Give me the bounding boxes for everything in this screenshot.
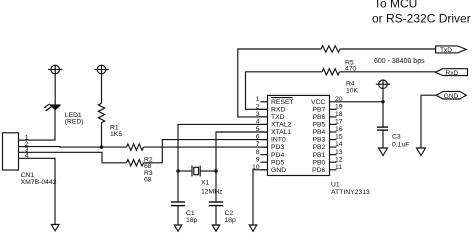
svg-text:X1: X1 [201, 179, 210, 186]
wire crystal right to C2 [215, 171, 217, 202]
wire CN1 pin4 to ground [26, 158, 56, 224]
wire GND flag to ground [421, 95, 436, 148]
svg-text:PB6: PB6 [312, 114, 325, 121]
svg-text:11: 11 [335, 164, 342, 171]
junction R1 / CN1 pin2 line [100, 145, 103, 148]
svg-text:PB1: PB1 [312, 152, 325, 159]
svg-text:RxD: RxD [446, 70, 459, 77]
wire R1 to D- line [101, 123, 103, 148]
ground (C3) [379, 148, 388, 156]
wire VCC to pin20 junction [337, 89, 384, 102]
wire GND pin10 to ground [253, 170, 268, 225]
svg-text:8: 8 [256, 149, 260, 156]
wire CN1 pin1 to LED1 [26, 110, 56, 140]
ground (CN1) [51, 225, 59, 231]
svg-text:GND: GND [271, 167, 286, 174]
resistor R2 68 [127, 144, 144, 150]
U1 reference label [331, 181, 370, 196]
svg-text:PB4: PB4 [312, 129, 325, 136]
svg-text:5: 5 [256, 126, 260, 133]
connector CN1 XM7B-0442 [3, 133, 57, 186]
wire CN1 pin3 to R3 [26, 152, 127, 163]
resistor R3 68 [127, 160, 144, 166]
ground (C1) [174, 225, 182, 231]
junction crystal right [214, 169, 217, 172]
resistor R1 1K5 [98, 103, 122, 138]
wire R4 to RxD flag [340, 71, 436, 73]
wire R5 to TxD flag [340, 48, 436, 50]
svg-text:R4: R4 [346, 80, 355, 87]
svg-text:PB3: PB3 [312, 137, 325, 144]
wire junction to C3 [382, 102, 384, 127]
svg-text:ATTINY2313: ATTINY2313 [331, 189, 370, 196]
junction VCC / C3 [381, 100, 384, 103]
svg-text:XM7B-0442: XM7B-0442 [21, 179, 57, 186]
wire power to LED1 anode [54, 74, 56, 105]
capacitor C3 0.1uF [377, 127, 409, 148]
wire C1 to ground [177, 206, 179, 225]
svg-text:PB0: PB0 [312, 159, 325, 166]
svg-text:RXD: RXD [271, 106, 285, 113]
svg-text:TXD: TXD [271, 114, 285, 121]
ground (U1 GND) [249, 225, 257, 231]
wire CN1 pin2 to R2 [26, 146, 127, 149]
junction crystal left [176, 169, 179, 172]
wire R3 up to U1 pin6 INT0 [144, 140, 268, 163]
svg-text:PD6: PD6 [312, 167, 325, 174]
label 600 - 38400 bps [374, 58, 425, 65]
ground (C2) [212, 225, 220, 231]
svg-text:PD3: PD3 [271, 144, 284, 151]
svg-text:PB7: PB7 [312, 106, 325, 113]
svg-text:PB5: PB5 [312, 122, 325, 129]
svg-text:TxD: TxD [440, 47, 452, 54]
svg-text:4: 4 [256, 119, 260, 126]
svg-text:1K5: 1K5 [110, 131, 122, 138]
capacitor C2 18p [209, 202, 236, 224]
svg-text:GND: GND [444, 93, 459, 100]
U1 right pin stubs and numbers [330, 96, 343, 171]
svg-text:18p: 18p [225, 217, 237, 224]
crystal X1 12MHz [178, 166, 223, 196]
svg-text:0.1uF: 0.1uF [392, 142, 409, 149]
power symbol VCC [376, 80, 391, 89]
svg-text:10K: 10K [346, 88, 359, 95]
svg-text:(RED): (RED) [65, 119, 84, 126]
wire R2 to U1 pin7 PD3 [144, 146, 268, 148]
svg-text:or RS-232C Driver: or RS-232C Driver [372, 11, 471, 25]
svg-text:6: 6 [256, 134, 260, 141]
resistor R5 470 [321, 46, 357, 73]
ground (GND flag) [417, 148, 426, 156]
svg-text:19: 19 [335, 103, 343, 110]
wire crystal left to C1 [177, 171, 179, 202]
svg-text:12: 12 [335, 156, 343, 163]
svg-text:To MCU: To MCU [374, 0, 417, 11]
svg-text:U1: U1 [331, 181, 340, 188]
IC U1 ATTINY2313 [268, 95, 330, 175]
svg-text:RESET: RESET [271, 99, 294, 106]
svg-text:13: 13 [335, 149, 343, 156]
svg-text:9: 9 [256, 156, 260, 163]
capacitor C1 18p [171, 202, 198, 224]
svg-text:18: 18 [335, 111, 343, 118]
svg-text:PB2: PB2 [312, 144, 325, 151]
wire TXD pin3 to R5 [238, 49, 321, 117]
wire C2 to ground [215, 206, 217, 225]
svg-text:14: 14 [335, 141, 343, 148]
U1 left pin stubs and numbers [252, 96, 268, 171]
svg-text:12MHz: 12MHz [201, 188, 223, 195]
svg-text:VCC: VCC [311, 99, 325, 106]
wire C3 to ground [382, 130, 384, 148]
svg-text:XTAL2: XTAL2 [271, 122, 291, 129]
LED LED1 (RED) [43, 104, 83, 126]
CN1 pin stubs and numbers 1-4 [19, 134, 29, 159]
svg-text:68: 68 [144, 177, 152, 184]
power symbol (R1 supply) [94, 65, 109, 74]
wire RXD pin2 to R4 [246, 72, 323, 110]
svg-text:1: 1 [256, 96, 260, 103]
wire XTAL2 pin4 to crystal left [178, 124, 268, 171]
svg-text:7: 7 [256, 141, 260, 148]
svg-text:PD4: PD4 [271, 152, 284, 159]
svg-text:XTAL1: XTAL1 [271, 129, 291, 136]
svg-text:INT0: INT0 [271, 137, 286, 144]
labels R2 68 R3 68 [144, 156, 153, 183]
net flag TxD [436, 46, 467, 54]
net flag GND [436, 91, 466, 99]
svg-text:600 - 38400 bps: 600 - 38400 bps [374, 58, 425, 65]
svg-text:17: 17 [335, 119, 343, 126]
wire XTAL1 pin5 to crystal right [216, 132, 268, 171]
svg-text:15: 15 [335, 134, 343, 141]
svg-text:PD5: PD5 [271, 159, 284, 166]
net flag RxD [435, 69, 467, 77]
wire power to R1 [101, 74, 103, 104]
svg-text:18p: 18p [186, 217, 198, 224]
note: To MCU / or RS-232C Driver [372, 0, 471, 25]
resistor R4 10K [322, 69, 359, 95]
svg-text:C3: C3 [392, 134, 401, 141]
svg-text:16: 16 [335, 126, 343, 133]
power symbol (LED1 supply) [48, 65, 63, 74]
